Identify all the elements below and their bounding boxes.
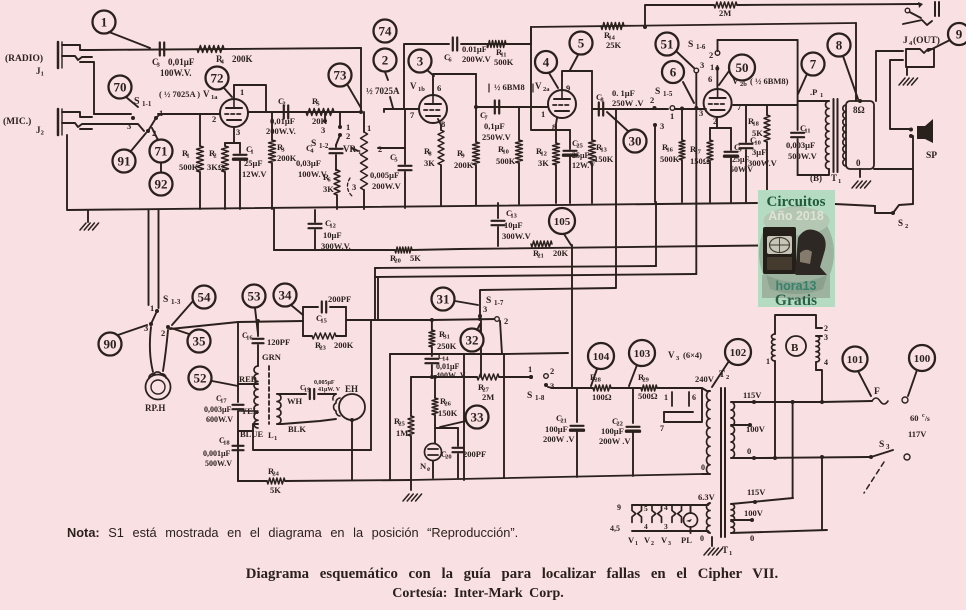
label YEL bbox=[241, 406, 259, 416]
label WH bbox=[287, 396, 303, 406]
svg-text:BLUE: BLUE bbox=[240, 429, 263, 439]
label C4 0,03uF 100W.V bbox=[296, 143, 328, 179]
svg-text:500K: 500K bbox=[660, 154, 680, 164]
svg-text:200PF: 200PF bbox=[463, 449, 486, 459]
label 8ohm tap bbox=[853, 99, 865, 115]
svg-text:6: 6 bbox=[437, 83, 441, 93]
svg-text:RED: RED bbox=[239, 374, 257, 384]
capacitor C17 bbox=[233, 384, 244, 441]
switch S1-3 bbox=[144, 295, 181, 338]
svg-text:16: 16 bbox=[666, 147, 673, 154]
svg-text:72: 72 bbox=[211, 71, 224, 86]
callout circle 103 bbox=[629, 340, 655, 386]
label C20 200PF bbox=[441, 449, 486, 461]
svg-text:28: 28 bbox=[594, 377, 601, 384]
transformer T2 secondary top bbox=[731, 402, 735, 458]
svg-text:3K: 3K bbox=[538, 158, 549, 168]
svg-text:2: 2 bbox=[550, 366, 554, 376]
svg-text:17: 17 bbox=[220, 398, 227, 405]
svg-text:S: S bbox=[655, 87, 660, 97]
svg-text:2: 2 bbox=[709, 50, 713, 60]
callout circle 33 bbox=[440, 406, 489, 429]
wire EH bottom BLK bbox=[253, 321, 371, 480]
svg-text:10: 10 bbox=[754, 140, 761, 147]
resistor R14 bbox=[601, 23, 624, 30]
label V2a bbox=[535, 81, 550, 93]
label 0 bottom bbox=[750, 533, 754, 543]
svg-text:5: 5 bbox=[644, 504, 648, 513]
svg-text:V: V bbox=[535, 81, 542, 91]
heater V1 bbox=[632, 505, 642, 522]
head RP.H bbox=[146, 372, 171, 400]
svg-text:1a: 1a bbox=[211, 94, 218, 101]
wire V1b cathode to R8 bbox=[438, 119, 441, 130]
svg-text:3: 3 bbox=[664, 522, 668, 531]
svg-text:0: 0 bbox=[856, 158, 861, 168]
resistor R20 bbox=[395, 247, 412, 253]
tube V1a bbox=[220, 85, 248, 127]
erase head EH bbox=[333, 394, 365, 420]
svg-text:90: 90 bbox=[104, 337, 117, 352]
svg-text:6: 6 bbox=[708, 74, 712, 84]
caption title bbox=[246, 566, 779, 582]
svg-text:200W .V: 200W .V bbox=[599, 436, 631, 446]
svg-text:1-8: 1-8 bbox=[535, 394, 545, 402]
svg-text:3KΩ: 3KΩ bbox=[207, 162, 225, 172]
resistor R3 bbox=[269, 112, 276, 209]
svg-text:1: 1 bbox=[766, 357, 770, 366]
transformer T1 core bbox=[834, 99, 838, 172]
label C10 3uF 300W.V bbox=[748, 135, 778, 168]
wire bus to S2 bbox=[835, 204, 875, 206]
capacitor C21 bbox=[571, 388, 584, 477]
svg-text:0: 0 bbox=[701, 463, 705, 472]
wire y354 left vert bbox=[389, 354, 391, 480]
resistor R28 bbox=[593, 385, 611, 391]
svg-text:3: 3 bbox=[550, 381, 554, 391]
svg-text:25μF: 25μF bbox=[572, 151, 590, 160]
watermark badge bbox=[758, 190, 835, 309]
input jack J1 (RADIO) bbox=[58, 42, 94, 114]
svg-text:18: 18 bbox=[752, 121, 759, 128]
svg-text:T: T bbox=[719, 369, 725, 379]
callout circle 31 bbox=[432, 288, 479, 311]
wire staircase y287 bbox=[480, 288, 616, 314]
label R26 150K bbox=[438, 396, 458, 418]
svg-text:15: 15 bbox=[320, 318, 327, 325]
label RP.H bbox=[145, 403, 165, 413]
svg-text:300W.V: 300W.V bbox=[502, 231, 532, 241]
wire R14 feedback row bbox=[531, 23, 856, 101]
resistor R13 bbox=[589, 71, 596, 203]
svg-text:0,005μF: 0,005μF bbox=[314, 380, 335, 386]
svg-text:3K: 3K bbox=[424, 158, 435, 168]
label half 6BM8 left bbox=[489, 82, 533, 92]
rectifier V3 bbox=[660, 388, 702, 433]
label C19 bbox=[300, 380, 341, 394]
svg-text:29: 29 bbox=[642, 377, 649, 384]
svg-text:2: 2 bbox=[41, 130, 44, 137]
svg-text:25: 25 bbox=[398, 421, 405, 428]
svg-text:/s: /s bbox=[924, 415, 930, 423]
resistor R21 bbox=[531, 241, 552, 247]
svg-text:31: 31 bbox=[443, 334, 450, 341]
svg-text:0. 1μF: 0. 1μF bbox=[612, 88, 635, 98]
label pins V2a bbox=[541, 83, 570, 132]
wire y354 line bbox=[390, 353, 568, 354]
wire EH top bbox=[277, 393, 336, 395]
svg-text:1: 1 bbox=[367, 123, 371, 133]
wire C6 branch bbox=[404, 44, 531, 109]
svg-text:16: 16 bbox=[246, 335, 253, 342]
label C7 0,1uF 250W.V bbox=[480, 110, 512, 142]
switch S1-2 bbox=[311, 112, 350, 150]
capacitor C13 bbox=[492, 203, 505, 246]
label R18 5K bbox=[748, 116, 763, 138]
wire vertical feed down bbox=[571, 245, 573, 388]
label VR1 pins bbox=[347, 123, 382, 196]
transformer T1h winding bbox=[707, 503, 711, 533]
label 100V bottom bbox=[744, 508, 764, 518]
svg-text:0,01μF: 0,01μF bbox=[436, 362, 460, 371]
svg-text:60: 60 bbox=[910, 413, 919, 423]
callout circle 1 bbox=[93, 11, 151, 49]
svg-text:1: 1 bbox=[541, 109, 545, 119]
wire C7 row bbox=[474, 105, 548, 109]
svg-text:1: 1 bbox=[159, 108, 163, 118]
label R5 20K bbox=[312, 96, 328, 126]
svg-text:2: 2 bbox=[213, 153, 216, 160]
svg-text:(MIC.): (MIC.) bbox=[3, 116, 31, 127]
wire staircase left elbow bbox=[374, 268, 376, 320]
main ground bus bbox=[67, 203, 757, 210]
label R24 5K bbox=[268, 466, 281, 495]
label R1 500K bbox=[179, 148, 199, 172]
transformer T2 core bbox=[721, 388, 725, 537]
label F bbox=[874, 387, 880, 397]
label 60c/s 117V bbox=[908, 413, 930, 439]
resistor R18 bbox=[764, 105, 770, 190]
svg-text:2: 2 bbox=[650, 95, 654, 105]
capacitor C18 bbox=[233, 431, 244, 481]
callout circle 35 bbox=[171, 328, 211, 353]
svg-text:3: 3 bbox=[352, 182, 356, 192]
wire C2 row bbox=[248, 111, 361, 113]
choke B taps bbox=[766, 324, 828, 367]
capacitor C1 bbox=[234, 143, 247, 209]
wire feedback vertical bbox=[531, 27, 570, 130]
svg-text:500W.V: 500W.V bbox=[205, 459, 232, 468]
wire staircase elbow 616 bbox=[615, 109, 617, 287]
resistor R8 bbox=[438, 130, 444, 206]
svg-text:Cortesía: Inter-Mark Corp.: Cortesía: Inter-Mark Corp. bbox=[392, 586, 564, 601]
switch S3 bbox=[864, 440, 910, 493]
svg-text:12: 12 bbox=[329, 223, 336, 230]
label pins V2b bbox=[699, 74, 742, 126]
callout circle 92 bbox=[150, 163, 173, 196]
svg-text:WH: WH bbox=[287, 396, 303, 406]
resistor R6 bbox=[334, 170, 340, 209]
svg-text:Circuitos: Circuitos bbox=[767, 194, 826, 210]
capacitor C22 bbox=[627, 388, 640, 476]
svg-text:3: 3 bbox=[127, 121, 131, 131]
wire V1a cathode bbox=[225, 127, 240, 143]
svg-text:(OUT): (OUT) bbox=[913, 35, 940, 46]
transformer L1 secondary bbox=[277, 394, 281, 424]
wire V1b plate loop bbox=[433, 74, 476, 80]
wire J2 to switch S1-1 bbox=[92, 124, 144, 131]
svg-text:32: 32 bbox=[466, 333, 479, 348]
wire J1 to switch S1-1 bbox=[94, 113, 131, 115]
svg-text:100V: 100V bbox=[746, 424, 766, 434]
svg-text:2: 2 bbox=[346, 131, 350, 141]
potentiometer VR1 bbox=[343, 112, 368, 209]
svg-text:B: B bbox=[791, 342, 799, 354]
labels heater tubes bbox=[628, 534, 704, 547]
svg-text:3: 3 bbox=[321, 125, 325, 135]
wire J4 feed from 8ohm bbox=[876, 51, 903, 101]
svg-text:23: 23 bbox=[319, 345, 326, 352]
label EH bbox=[345, 384, 358, 394]
capacitor C6 bbox=[453, 38, 457, 51]
caption nota bbox=[67, 525, 518, 540]
svg-text:25K: 25K bbox=[606, 40, 622, 50]
heater V2 bbox=[652, 505, 662, 522]
wire grid row to V1b bbox=[384, 109, 419, 112]
svg-text:0: 0 bbox=[747, 446, 751, 456]
wire 100V tap bottom bbox=[731, 518, 754, 522]
heater rail bottom bbox=[632, 530, 708, 532]
svg-text:T: T bbox=[831, 173, 837, 183]
capacitor J4 tip bbox=[935, 2, 939, 16]
svg-text:0: 0 bbox=[750, 533, 754, 543]
svg-text:2b: 2b bbox=[740, 81, 747, 88]
wire S1-7 contact2 down bbox=[481, 321, 502, 377]
svg-text:½ 6BM8: ½ 6BM8 bbox=[494, 82, 525, 92]
svg-text:12W.V: 12W.V bbox=[242, 169, 267, 179]
svg-text:6: 6 bbox=[670, 65, 677, 80]
label (B) T1 bbox=[810, 173, 841, 185]
svg-text:( ½ 7025A ): ( ½ 7025A ) bbox=[159, 89, 200, 99]
label C1 25uF 12W.V bbox=[242, 144, 267, 179]
svg-text:21: 21 bbox=[537, 253, 544, 260]
label J4(OUT) bbox=[903, 35, 940, 47]
svg-text:600W.V: 600W.V bbox=[206, 415, 233, 424]
svg-text:101: 101 bbox=[847, 354, 864, 366]
callout circle 50 bbox=[719, 55, 755, 86]
wire osc box right vert bbox=[463, 354, 465, 480]
svg-text:100Ω: 100Ω bbox=[592, 392, 612, 402]
svg-text:115V: 115V bbox=[743, 390, 762, 400]
labels heater pins bbox=[610, 503, 668, 533]
callout circle 8 bbox=[828, 34, 859, 100]
svg-text:2a: 2a bbox=[543, 86, 550, 93]
svg-text:2: 2 bbox=[212, 114, 216, 124]
svg-text:102: 102 bbox=[730, 347, 747, 359]
svg-text:V: V bbox=[661, 535, 668, 545]
svg-text:3μF: 3μF bbox=[752, 147, 766, 157]
svg-text:2: 2 bbox=[378, 144, 382, 154]
transformer T2 primary bbox=[702, 391, 710, 474]
transformer T1 primary coil bbox=[798, 101, 829, 175]
svg-text:0.01μF: 0.01μF bbox=[462, 44, 487, 54]
capacitor C14 bbox=[425, 359, 438, 377]
callout circle 7 bbox=[798, 53, 825, 95]
switch S1-1 bbox=[127, 96, 163, 138]
resistor R17 bbox=[707, 128, 713, 202]
svg-text:1: 1 bbox=[240, 87, 244, 97]
svg-text:10μF: 10μF bbox=[323, 230, 342, 240]
wire heater feed row bbox=[548, 387, 669, 388]
callout circle 6 bbox=[662, 61, 694, 103]
label BLK bbox=[288, 424, 306, 434]
wire C8 row bbox=[592, 108, 706, 110]
svg-text:1: 1 bbox=[250, 149, 253, 156]
svg-text:12: 12 bbox=[540, 151, 547, 158]
svg-text:250K: 250K bbox=[437, 341, 457, 351]
callout circle 90 bbox=[99, 325, 148, 356]
svg-text:120PF: 120PF bbox=[267, 337, 290, 347]
label 1/2 7025A mid bbox=[366, 86, 400, 108]
wire V2b grid up bbox=[717, 40, 797, 105]
tube V1b bbox=[419, 80, 447, 123]
svg-text:74: 74 bbox=[379, 24, 393, 39]
svg-text:Nota: S1 está mostrada en el d: Nota: S1 está mostrada en el diagrama en… bbox=[67, 525, 518, 540]
svg-text:71: 71 bbox=[155, 144, 168, 159]
wire S1-6 elbow to staircase bbox=[695, 202, 697, 274]
svg-text:1: 1 bbox=[101, 15, 108, 30]
svg-text:104: 104 bbox=[593, 351, 610, 363]
svg-text:34: 34 bbox=[279, 288, 293, 303]
wire S1-5 elbow to staircase bbox=[655, 202, 657, 266]
wire S1-1 pole to V1a grid bbox=[156, 114, 220, 118]
choke B frame bbox=[775, 315, 816, 334]
svg-text:400W .V: 400W .V bbox=[436, 371, 466, 380]
callout circle 52 bbox=[189, 367, 239, 390]
wire 2M top loop bbox=[643, 2, 923, 29]
wire 100V tap top bbox=[731, 423, 752, 427]
label C5 0,005uF 200W.V bbox=[370, 152, 402, 191]
svg-text:250W.V: 250W.V bbox=[482, 132, 512, 142]
capacitor C2 bbox=[284, 106, 288, 119]
svg-text:3: 3 bbox=[417, 54, 424, 69]
svg-text:3: 3 bbox=[699, 108, 703, 118]
svg-text:24: 24 bbox=[272, 471, 279, 478]
resistor R10 bbox=[516, 107, 523, 204]
input jack J2 (MIC.) bbox=[58, 109, 92, 135]
wire YEL tap bbox=[238, 410, 258, 412]
callout circle 3 bbox=[409, 50, 435, 77]
ground T1h bbox=[704, 533, 723, 555]
svg-text:2M: 2M bbox=[719, 8, 731, 18]
svg-text:F: F bbox=[874, 387, 880, 397]
resistor R24 bbox=[267, 478, 285, 484]
svg-text:19: 19 bbox=[304, 387, 311, 394]
svg-text:5K: 5K bbox=[270, 485, 281, 495]
label (MIC.) J2 bbox=[3, 116, 44, 137]
svg-text:13: 13 bbox=[510, 213, 517, 220]
svg-text:20: 20 bbox=[445, 454, 452, 461]
svg-text:1-1: 1-1 bbox=[142, 100, 152, 108]
svg-text:10μF: 10μF bbox=[504, 220, 523, 230]
svg-text:73: 73 bbox=[334, 68, 348, 83]
label C9 25uF 50W.V bbox=[730, 142, 753, 174]
label C22 100uF 200W.V bbox=[599, 416, 631, 446]
wire top line corner down to VR1 bbox=[359, 48, 363, 114]
ground symbol left bbox=[80, 210, 99, 230]
svg-text:26: 26 bbox=[444, 401, 451, 408]
svg-text:S: S bbox=[134, 96, 140, 107]
svg-text:54: 54 bbox=[198, 290, 212, 305]
svg-text:200W.V: 200W.V bbox=[372, 181, 402, 191]
callout circle 53 bbox=[243, 285, 266, 335]
svg-text:18: 18 bbox=[223, 440, 230, 447]
capacitor C8 bbox=[599, 103, 603, 116]
svg-text:2: 2 bbox=[905, 223, 908, 230]
svg-text:105: 105 bbox=[554, 216, 571, 228]
label RED bbox=[239, 374, 257, 384]
choke B left coil bbox=[772, 334, 775, 361]
label R16 500K bbox=[660, 142, 680, 164]
wire V2a plate row bbox=[562, 71, 592, 75]
wire staircase left elbow2 bbox=[375, 277, 378, 320]
svg-text:1-5: 1-5 bbox=[663, 90, 673, 98]
transformer L1 core bbox=[268, 366, 270, 424]
svg-text:70: 70 bbox=[114, 80, 127, 95]
wire BLUE tap bbox=[238, 424, 258, 431]
svg-text:(B): (B) bbox=[810, 173, 822, 183]
label R4 200K bbox=[216, 54, 253, 66]
wire S1-5 contact3 down bbox=[654, 127, 656, 202]
resistor R16 bbox=[679, 107, 685, 203]
callout circle 2 bbox=[374, 49, 397, 81]
svg-text:1-2: 1-2 bbox=[319, 142, 329, 150]
resistor R12 bbox=[553, 130, 560, 203]
svg-text:V: V bbox=[628, 535, 635, 545]
callout circle 51 bbox=[656, 33, 695, 69]
wire 115V row right bbox=[754, 400, 872, 404]
label C16 120PF bbox=[242, 331, 290, 347]
switch S1-5 bbox=[650, 87, 675, 131]
wiper wire VR1 to C5 bbox=[378, 147, 405, 149]
label V2b (1/2 6BM8) bbox=[732, 76, 789, 88]
svg-text:2: 2 bbox=[651, 541, 654, 547]
label (RADIO) J1 bbox=[5, 53, 44, 78]
wire vert 822 link lower bbox=[820, 455, 824, 530]
svg-text:2: 2 bbox=[504, 316, 508, 326]
wire V2b plate row bbox=[733, 104, 798, 106]
svg-text:EH: EH bbox=[345, 384, 358, 394]
resistor R2 bbox=[222, 143, 229, 209]
label C2 0,01uF 200W.V. bbox=[266, 96, 296, 136]
label R10 500K bbox=[496, 144, 516, 166]
label T1h bbox=[722, 545, 732, 557]
heater V3f bbox=[672, 505, 682, 522]
svg-text:0,01μF: 0,01μF bbox=[270, 116, 295, 126]
choke B circle label bbox=[786, 336, 806, 356]
capacitor C4 bbox=[330, 112, 343, 170]
svg-text:3: 3 bbox=[668, 541, 671, 547]
svg-text:200K: 200K bbox=[454, 160, 474, 170]
svg-text:BLK: BLK bbox=[288, 424, 306, 434]
svg-text:500Ω: 500Ω bbox=[638, 391, 658, 401]
wire vert 792 link bbox=[792, 402, 794, 498]
svg-text:1: 1 bbox=[528, 364, 532, 374]
capacitor C9 bbox=[725, 128, 738, 202]
label 6.3V bbox=[698, 492, 716, 502]
svg-text:1: 1 bbox=[186, 153, 189, 160]
resistor R4 bbox=[197, 46, 224, 53]
